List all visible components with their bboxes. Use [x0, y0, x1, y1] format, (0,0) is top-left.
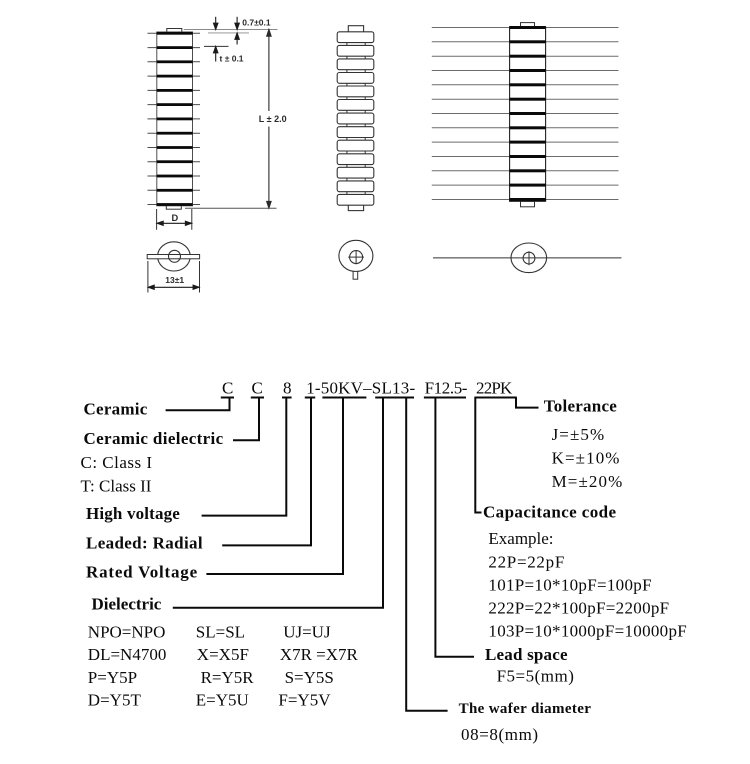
svg-text:R=Y5R: R=Y5R: [201, 668, 255, 687]
connector lines from code to labels: [166, 398, 539, 711]
bottom extension line (left view): [185, 207, 277, 209]
svg-text:1-50KV–SL13-: 1-50KV–SL13-: [306, 378, 415, 397]
dimension t extension line: [204, 45, 229, 47]
connector: Rated Voltage: [206, 398, 343, 575]
svg-text:Rated Voltage: Rated Voltage: [86, 562, 198, 581]
svg-text:t ± 0.1: t ± 0.1: [220, 53, 244, 63]
svg-text:222P=22*100pF=2200pF: 222P=22*100pF=2200pF: [488, 598, 669, 617]
svg-text:SL=SL: SL=SL: [196, 623, 245, 642]
svg-text:C: Class I: C: Class I: [81, 453, 153, 472]
dimension 13±1 line with arrowheads: [148, 285, 199, 289]
bottom terminal tab (right view): [521, 201, 535, 207]
svg-text:13±1: 13±1: [165, 275, 184, 285]
connector: Tolerance: [516, 398, 539, 408]
svg-text:X=X5F: X=X5F: [197, 645, 249, 664]
connector: Ceramic: [166, 398, 230, 411]
top terminal tab (right view): [521, 23, 535, 28]
svg-text:X7R =X7R: X7R =X7R: [280, 645, 359, 664]
top terminal tab (left view): [167, 29, 182, 33]
svg-text:22P=22pF: 22P=22pF: [488, 552, 565, 571]
bottom terminal tab (middle view): [348, 204, 363, 211]
svg-text:Capacitance code: Capacitance code: [483, 502, 616, 521]
svg-text:Ceramic: Ceramic: [84, 399, 148, 418]
connector: Lead space: [435, 398, 474, 657]
svg-text:T: Class II: T: Class II: [81, 476, 152, 495]
underline bars below code segments: [221, 397, 517, 399]
center hole with cross (middle bottom view): [350, 251, 363, 264]
lead wires (left view): [148, 33, 201, 204]
lead wires (right view): [432, 28, 619, 200]
svg-text:DL=N4700: DL=N4700: [88, 645, 167, 664]
lead wire through bottom view (right): [433, 257, 622, 259]
svg-text:08=8(mm): 08=8(mm): [461, 725, 539, 744]
spacer tabs between discs (middle view): [347, 42, 365, 195]
connector: Leaded Radial: [222, 398, 311, 546]
connector: wafer diameter: [406, 398, 447, 711]
center hole with cross (right bottom view): [523, 252, 535, 264]
connector: Ceramic dielectric: [233, 398, 259, 441]
dimension t±0.1 arrow: [214, 47, 218, 62]
svg-text:8: 8: [283, 378, 292, 397]
svg-text:101P=10*10pF=100pF: 101P=10*10pF=100pF: [488, 575, 651, 594]
svg-text:F12.5-: F12.5-: [425, 378, 468, 397]
svg-text:C: C: [252, 378, 263, 397]
svg-text:F=Y5V: F=Y5V: [278, 690, 331, 709]
connector: High voltage: [202, 398, 287, 516]
bottom view disc (middle), outer circle: [339, 240, 373, 271]
svg-text:Ceramic dielectric: Ceramic dielectric: [84, 429, 224, 448]
svg-text:K=±10%: K=±10%: [552, 449, 621, 468]
ceramic body (left view): [157, 32, 193, 206]
dimension D line with outward arrowheads: [157, 221, 191, 225]
electrode bands (left view): [157, 32, 193, 206]
svg-text:L ± 2.0: L ± 2.0: [259, 114, 287, 124]
svg-text:P=Y5P: P=Y5P: [88, 668, 137, 687]
svg-text:0.7±0.1: 0.7±0.1: [242, 18, 271, 28]
dimension 13±1 extension lines: [147, 261, 149, 293]
svg-text:UJ=UJ: UJ=UJ: [283, 623, 331, 642]
svg-text:E=Y5U: E=Y5U: [196, 690, 249, 709]
top terminal tab (middle view): [348, 26, 363, 33]
dimension extension line (top of body): [208, 32, 249, 34]
bottom terminal tab (left view): [166, 205, 181, 209]
svg-text:F5=5(mm): F5=5(mm): [497, 666, 575, 685]
svg-text:The wafer diameter: The wafer diameter: [459, 701, 592, 717]
center hole circle (left bottom view): [169, 250, 181, 262]
svg-text:S=Y5S: S=Y5S: [285, 668, 334, 687]
dimension extension line (top of tab): [184, 29, 278, 31]
lead stub (middle bottom view): [353, 271, 358, 279]
ceramic discs (middle view): [337, 32, 374, 205]
svg-text:Lead space: Lead space: [485, 645, 568, 664]
connector: Dielectric: [173, 398, 383, 608]
svg-text:Leaded: Radial: Leaded: Radial: [86, 533, 203, 552]
dimension L±2.0 line with arrowheads: [267, 30, 271, 209]
connector: Capacitance code: [475, 398, 481, 513]
svg-text:NPO=NPO: NPO=NPO: [88, 623, 166, 642]
svg-text:High voltage: High voltage: [86, 504, 180, 523]
ceramic body (right view): [510, 27, 546, 201]
svg-text:J=±5%: J=±5%: [552, 425, 606, 444]
bottom view disc (left), outer circle: [158, 242, 191, 271]
electrode bands (right view): [509, 26, 545, 201]
svg-text:Example:: Example:: [488, 529, 553, 548]
svg-text:D=Y5T: D=Y5T: [88, 690, 142, 709]
svg-text:Tolerance: Tolerance: [544, 397, 618, 416]
svg-text:D: D: [172, 213, 179, 223]
dimension D extension lines: [156, 209, 158, 230]
dimension 0.7±0.1 arrows: [214, 17, 240, 45]
svg-text:103P=10*1000pF=10000pF: 103P=10*1000pF=10000pF: [488, 621, 687, 640]
svg-text:22PK: 22PK: [476, 378, 513, 397]
lead wire bar (left bottom view): [147, 255, 199, 259]
svg-text:M=±20%: M=±20%: [552, 472, 624, 491]
svg-text:C: C: [222, 378, 233, 397]
bottom view disc (right), outer circle: [511, 243, 547, 273]
svg-text:Dielectric: Dielectric: [92, 595, 162, 614]
